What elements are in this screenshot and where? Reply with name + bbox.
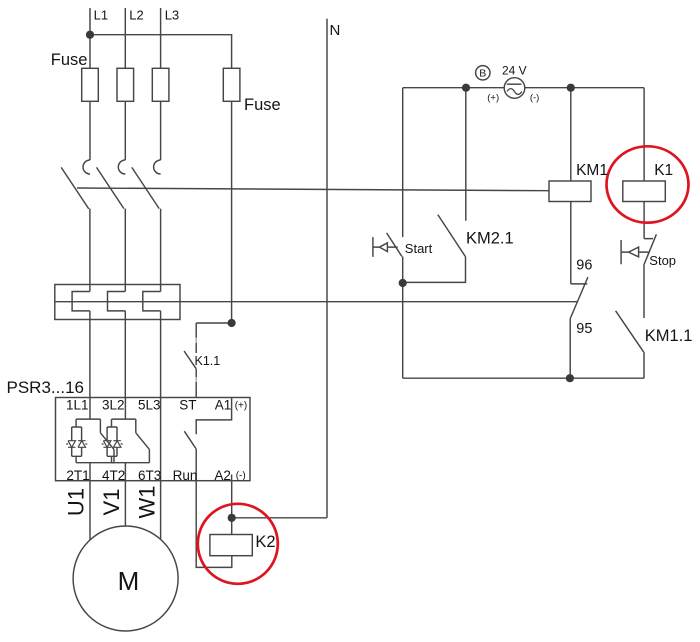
svg-text:4T2: 4T2 xyxy=(102,468,125,483)
svg-text:5L3: 5L3 xyxy=(138,398,161,413)
svg-text:N: N xyxy=(330,22,341,39)
svg-text:Fuse: Fuse xyxy=(244,96,281,114)
svg-text:96: 96 xyxy=(576,258,592,274)
svg-text:(-): (-) xyxy=(530,93,540,104)
svg-text:K1: K1 xyxy=(654,162,673,179)
svg-text:(+): (+) xyxy=(487,93,499,104)
svg-text:W1: W1 xyxy=(134,486,159,519)
svg-text:U1: U1 xyxy=(64,488,89,516)
svg-text:A1: A1 xyxy=(215,398,232,413)
svg-text:Start: Start xyxy=(405,241,433,256)
svg-text:M: M xyxy=(118,566,140,596)
svg-text:K1.1: K1.1 xyxy=(195,354,221,368)
svg-text:(-): (-) xyxy=(236,470,246,481)
svg-text:KM2.1: KM2.1 xyxy=(466,230,514,248)
svg-text:L1: L1 xyxy=(94,7,108,22)
svg-text:Fuse: Fuse xyxy=(51,51,88,69)
svg-text:ST: ST xyxy=(179,398,196,413)
svg-text:KM1.1: KM1.1 xyxy=(645,327,693,345)
svg-text:24 V: 24 V xyxy=(502,63,527,77)
svg-text:95: 95 xyxy=(576,321,592,337)
svg-text:L3: L3 xyxy=(165,7,179,22)
svg-text:PSR3...16: PSR3...16 xyxy=(7,378,85,397)
svg-text:A2: A2 xyxy=(214,468,231,483)
svg-text:Stop: Stop xyxy=(649,253,676,268)
svg-text:K2: K2 xyxy=(255,533,275,551)
svg-text:(+): (+) xyxy=(235,400,248,411)
svg-text:Run: Run xyxy=(173,468,198,483)
svg-text:3L2: 3L2 xyxy=(102,398,125,413)
svg-text:KM1: KM1 xyxy=(576,162,608,179)
svg-text:6T3: 6T3 xyxy=(138,468,161,483)
svg-text:L2: L2 xyxy=(129,7,143,22)
svg-text:V1: V1 xyxy=(99,489,124,516)
svg-text:B: B xyxy=(479,68,486,80)
svg-text:1L1: 1L1 xyxy=(66,398,89,413)
svg-text:2T1: 2T1 xyxy=(66,468,89,483)
